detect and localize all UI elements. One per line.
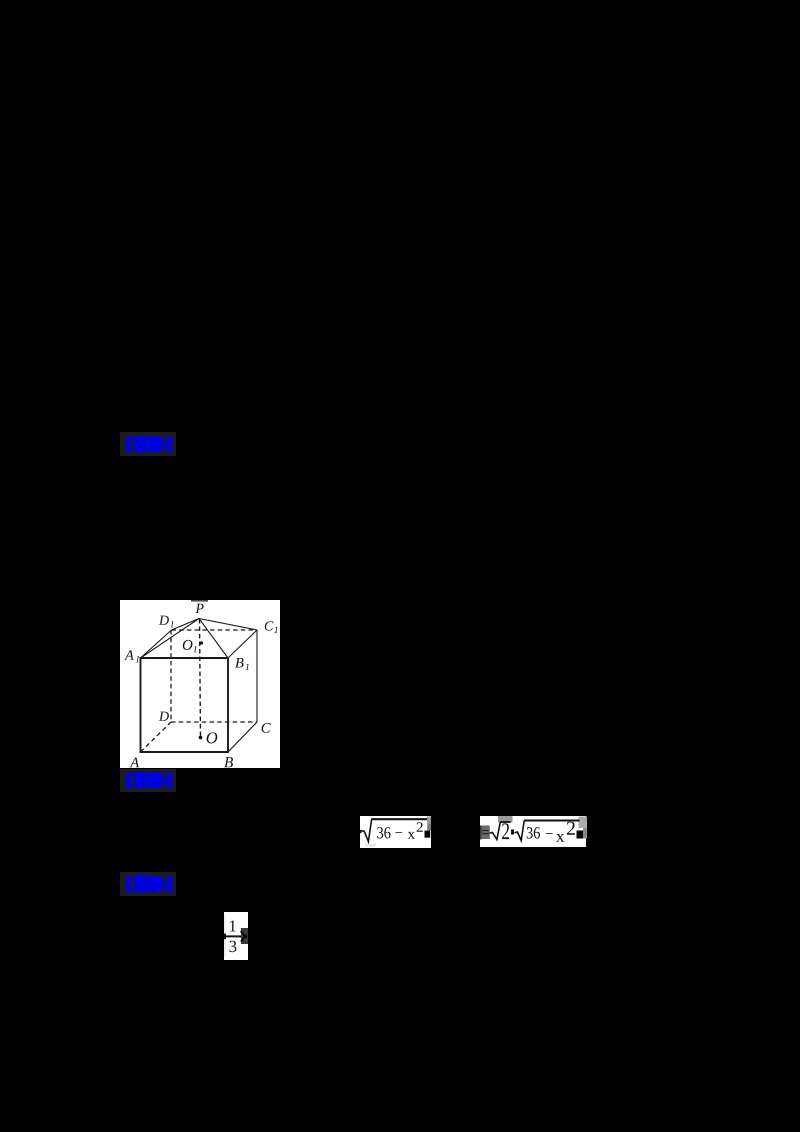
formula 2: = sqrt(2) * sqrt(36 - x^2) [480,816,586,847]
radical hook [360,820,371,842]
solid edge B1-C1 [228,630,257,658]
apex edge P-A1 [141,619,200,659]
trailing black block [425,831,431,838]
superscript 2 [566,821,574,834]
label C [262,723,271,733]
dashed axis P-O1-O [200,619,201,737]
solid front face A1-B1-B-A [141,658,229,752]
equals fragment at left edge [224,934,226,940]
point O [199,736,203,740]
apex edge P-D1 [172,619,200,631]
second radical hook [514,820,524,840]
glyph x [556,834,564,842]
dashed hidden edge A-D [141,722,172,752]
dark smudge artifact at top edge [191,600,208,602]
equals sign [482,830,489,834]
solid edge A1-D1 [141,630,172,658]
glyphs 36 [377,827,390,838]
label C1 [265,621,278,633]
label B1 [235,658,249,670]
numerator 1 [230,921,236,932]
label P [195,604,203,613]
dashed hidden bottom edge D-C [171,721,257,723]
black x/chevron glyph on gray block [240,931,248,943]
geometry figure: quadrangular prism ABCD-A1B1C1D1 with apex P [120,600,280,768]
point O1 [200,641,203,644]
solid edge B-C [228,722,257,752]
first radical vinculum [500,821,510,823]
second radical vinculum [524,819,580,821]
label D [159,712,169,721]
solid edge C-C1 [256,630,258,722]
glyphs 36 [526,827,539,838]
blue section label 1 [120,432,176,456]
blue section label 3 [120,872,176,896]
multiplication dot [511,829,514,834]
superscript 2 [417,822,423,831]
minus sign [545,832,552,835]
formula 1: sqrt(36 - x^2) [360,816,431,848]
label B [224,757,233,767]
gray block right of bar [241,928,248,944]
faint gray strip at left edge [224,915,226,957]
denominator 3 [229,941,236,953]
first radical hook [489,822,500,840]
apex edge P-C1 [199,619,257,631]
jpeg artifact gray blocks [427,817,431,825]
label A1 [124,650,139,662]
fraction 1/3 [224,912,248,960]
jpeg artifact gray blocks [498,816,513,823]
blue section label 2 [120,769,176,792]
label O [207,732,218,743]
label O1 [183,640,197,652]
trailing black block [576,830,583,838]
dashed top-back edge D1-C1 [172,629,258,631]
fraction bar [224,935,241,937]
apex edge P-B1 [199,619,228,659]
label D1 [159,616,174,628]
glyph 2 under first radical [502,823,509,839]
dashed hidden vertical edge D1-D [170,630,172,722]
radical vinculum [371,818,427,820]
label A [130,758,140,768]
glyph x [408,832,415,839]
minus sign [396,831,403,834]
